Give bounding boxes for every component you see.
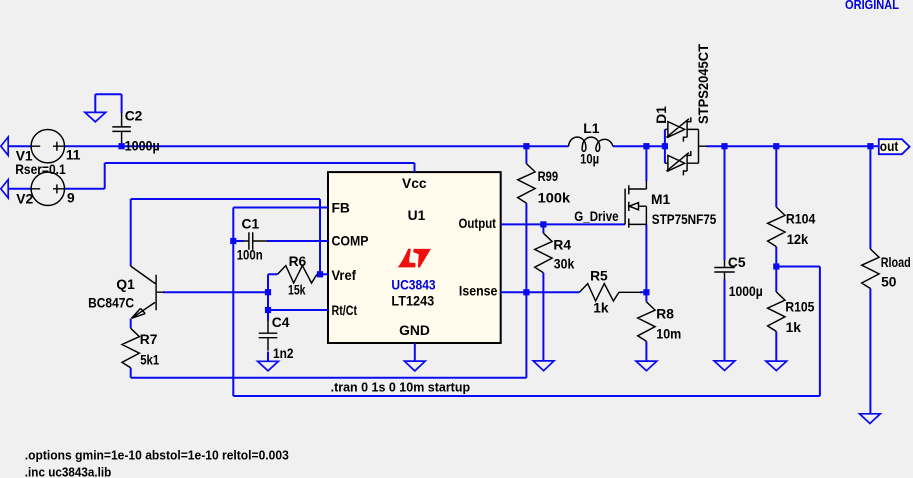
svg-text:R5: R5	[590, 269, 608, 284]
svg-text:15k: 15k	[288, 283, 306, 298]
svg-text:GND: GND	[399, 323, 430, 338]
svg-text:C4: C4	[272, 315, 290, 330]
svg-text:1k: 1k	[786, 320, 802, 335]
svg-text:Rt/Ct: Rt/Ct	[332, 303, 358, 318]
svg-text:Output: Output	[459, 216, 497, 231]
svg-text:.inc uc3843a.lib: .inc uc3843a.lib	[25, 464, 112, 478]
svg-text:Rser=0.1: Rser=0.1	[15, 162, 66, 177]
svg-text:R105: R105	[785, 299, 814, 314]
svg-text:R104: R104	[786, 212, 816, 227]
svg-text:M1: M1	[651, 192, 670, 207]
svg-text:R4: R4	[553, 238, 571, 253]
svg-text:COMP: COMP	[332, 234, 369, 249]
svg-text:11: 11	[66, 148, 81, 163]
svg-text:10µ: 10µ	[580, 152, 599, 167]
svg-text:Q1: Q1	[116, 277, 135, 292]
svg-text:1n2: 1n2	[273, 346, 294, 361]
svg-text:12k: 12k	[787, 232, 809, 247]
svg-text:R7: R7	[140, 332, 158, 347]
svg-text:BC847C: BC847C	[88, 296, 134, 311]
svg-text:9: 9	[67, 191, 75, 206]
svg-text:UC3843: UC3843	[391, 277, 435, 292]
svg-text:.tran 0 1s 0 10m startup: .tran 0 1s 0 10m startup	[331, 379, 471, 394]
svg-text:V2: V2	[16, 191, 33, 206]
svg-text:1k: 1k	[593, 301, 609, 316]
svg-text:out: out	[880, 139, 899, 154]
svg-text:C5: C5	[728, 255, 746, 270]
svg-text:100k: 100k	[538, 191, 571, 206]
svg-text:FB: FB	[332, 201, 350, 216]
svg-text:LT1243: LT1243	[391, 294, 434, 309]
svg-text:50: 50	[881, 275, 897, 290]
svg-text:C1: C1	[242, 216, 260, 231]
svg-text:STPS2045CT: STPS2045CT	[696, 43, 711, 124]
svg-text:G_Drive: G_Drive	[574, 209, 619, 224]
svg-text:1000µ: 1000µ	[729, 284, 763, 299]
svg-text:R8: R8	[656, 307, 674, 322]
svg-text:.options gmin=1e-10 abstol=1e-: .options gmin=1e-10 abstol=1e-10 reltol=…	[25, 448, 289, 463]
svg-text:Isense: Isense	[459, 283, 498, 298]
svg-text:U1: U1	[408, 208, 426, 223]
svg-text:30k: 30k	[554, 256, 575, 271]
svg-text:L1: L1	[583, 121, 599, 136]
svg-text:C2: C2	[125, 108, 143, 123]
svg-text:1000µ: 1000µ	[125, 138, 160, 153]
svg-text:ORIGINAL: ORIGINAL	[845, 0, 899, 12]
svg-text:Rload: Rload	[881, 255, 911, 270]
svg-text:Vref: Vref	[332, 268, 357, 283]
svg-text:100n: 100n	[237, 247, 263, 262]
svg-text:R6: R6	[289, 254, 307, 269]
svg-text:R99: R99	[538, 169, 559, 184]
svg-text:10m: 10m	[656, 326, 681, 341]
svg-text:5k1: 5k1	[140, 352, 159, 367]
svg-text:STP75NF75: STP75NF75	[652, 212, 717, 227]
svg-text:Vcc: Vcc	[402, 176, 427, 191]
svg-text:D1: D1	[654, 106, 669, 124]
